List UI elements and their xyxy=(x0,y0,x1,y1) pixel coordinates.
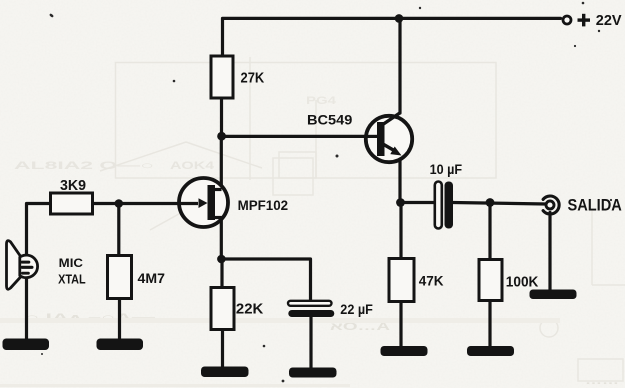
connector salida jack xyxy=(543,196,559,214)
svg-text:MPF102: MPF102 xyxy=(238,198,289,214)
svg-text:BC549: BC549 xyxy=(307,113,353,128)
svg-text:47K: 47K xyxy=(419,274,444,289)
ground mic xyxy=(3,339,50,351)
ground 4M7 xyxy=(97,339,144,351)
ground salida xyxy=(530,290,577,300)
wire gate junction down to 4M7 xyxy=(117,204,120,257)
svg-text:10 µF: 10 µF xyxy=(430,162,463,177)
capacitor C3 22uF xyxy=(288,301,334,317)
wire mic to 3K9 xyxy=(27,204,52,257)
node junction MPF102 source xyxy=(217,255,226,264)
wire 27K bottom to base junction xyxy=(220,98,223,138)
svg-text:MIC: MIC xyxy=(59,256,84,270)
wire salida jack to ground xyxy=(548,213,551,292)
resistor 4M7 xyxy=(108,256,132,299)
capacitor C2 10uF xyxy=(435,182,453,229)
terminal +22V xyxy=(563,16,571,24)
wire 22K bottom to ground xyxy=(221,329,224,367)
wire 4M7 bottom to ground xyxy=(118,298,121,339)
resistor 22K xyxy=(211,288,234,330)
plus sign xyxy=(578,14,591,27)
node junction 100K/salida xyxy=(486,198,495,207)
svg-text:AL8IA2 O—○: AL8IA2 O—○ xyxy=(14,160,154,172)
svg-text:100K: 100K xyxy=(506,274,539,290)
ground 22K xyxy=(201,367,249,378)
transistor Q1 MPF102 JFET xyxy=(179,178,228,227)
ground 22uF xyxy=(289,368,337,378)
wire BC549 emitter down to output junction xyxy=(398,154,401,204)
resistor 27K xyxy=(211,56,233,98)
wire source junction to 22K xyxy=(220,258,223,288)
wire 47K top xyxy=(399,203,402,260)
microphone MIC XTAL xyxy=(7,241,38,290)
wire MPF102 source down to source junction xyxy=(220,218,223,261)
svg-text:SALIDA: SALIDA xyxy=(568,196,622,214)
svg-text:27K: 27K xyxy=(241,71,265,87)
svg-text:……: …… xyxy=(585,375,619,387)
node junction base of BC549 xyxy=(217,132,226,141)
svg-text:22K: 22K xyxy=(236,301,264,317)
wire 22uF bottom to ground xyxy=(309,317,312,369)
resistor 47K xyxy=(389,259,414,302)
wire 100K bottom to ground xyxy=(488,301,491,348)
wire mic bottom to ground xyxy=(25,277,28,339)
node junction emitter/10uF xyxy=(396,198,405,207)
ground 47K xyxy=(381,346,428,356)
wire base junction down to MPF102 drain xyxy=(220,134,223,190)
svg-text:3K9: 3K9 xyxy=(60,178,86,194)
wire source junction to 22uF xyxy=(222,259,311,300)
wire base of BC549 xyxy=(222,135,368,138)
transistor Q2 BC549 NPN xyxy=(366,113,412,163)
svg-text:AOK4: AOK4 xyxy=(170,160,215,172)
wire 47K bottom to ground xyxy=(399,301,402,347)
ground 100K xyxy=(467,346,514,356)
node junction gate/4M7 xyxy=(115,199,124,208)
svg-text:22V: 22V xyxy=(596,12,622,29)
wire BC549 collector to rail xyxy=(398,18,401,113)
wire 10uF to salida jack xyxy=(453,203,547,205)
resistor 100K xyxy=(479,260,502,301)
wire 3K9 to MPF102 gate xyxy=(92,202,199,205)
svg-text:22 µF: 22 µF xyxy=(340,302,373,318)
wire top supply rail xyxy=(223,18,561,56)
wire junction down to 100K xyxy=(488,203,491,261)
svg-text:4M7: 4M7 xyxy=(138,270,166,286)
resistor 3K9 xyxy=(51,193,93,214)
wire output junction to 10uF xyxy=(400,201,436,204)
svg-text:PG4: PG4 xyxy=(306,95,337,107)
node junction on supply rail xyxy=(395,14,404,23)
svg-text:XTAL: XTAL xyxy=(58,273,86,287)
